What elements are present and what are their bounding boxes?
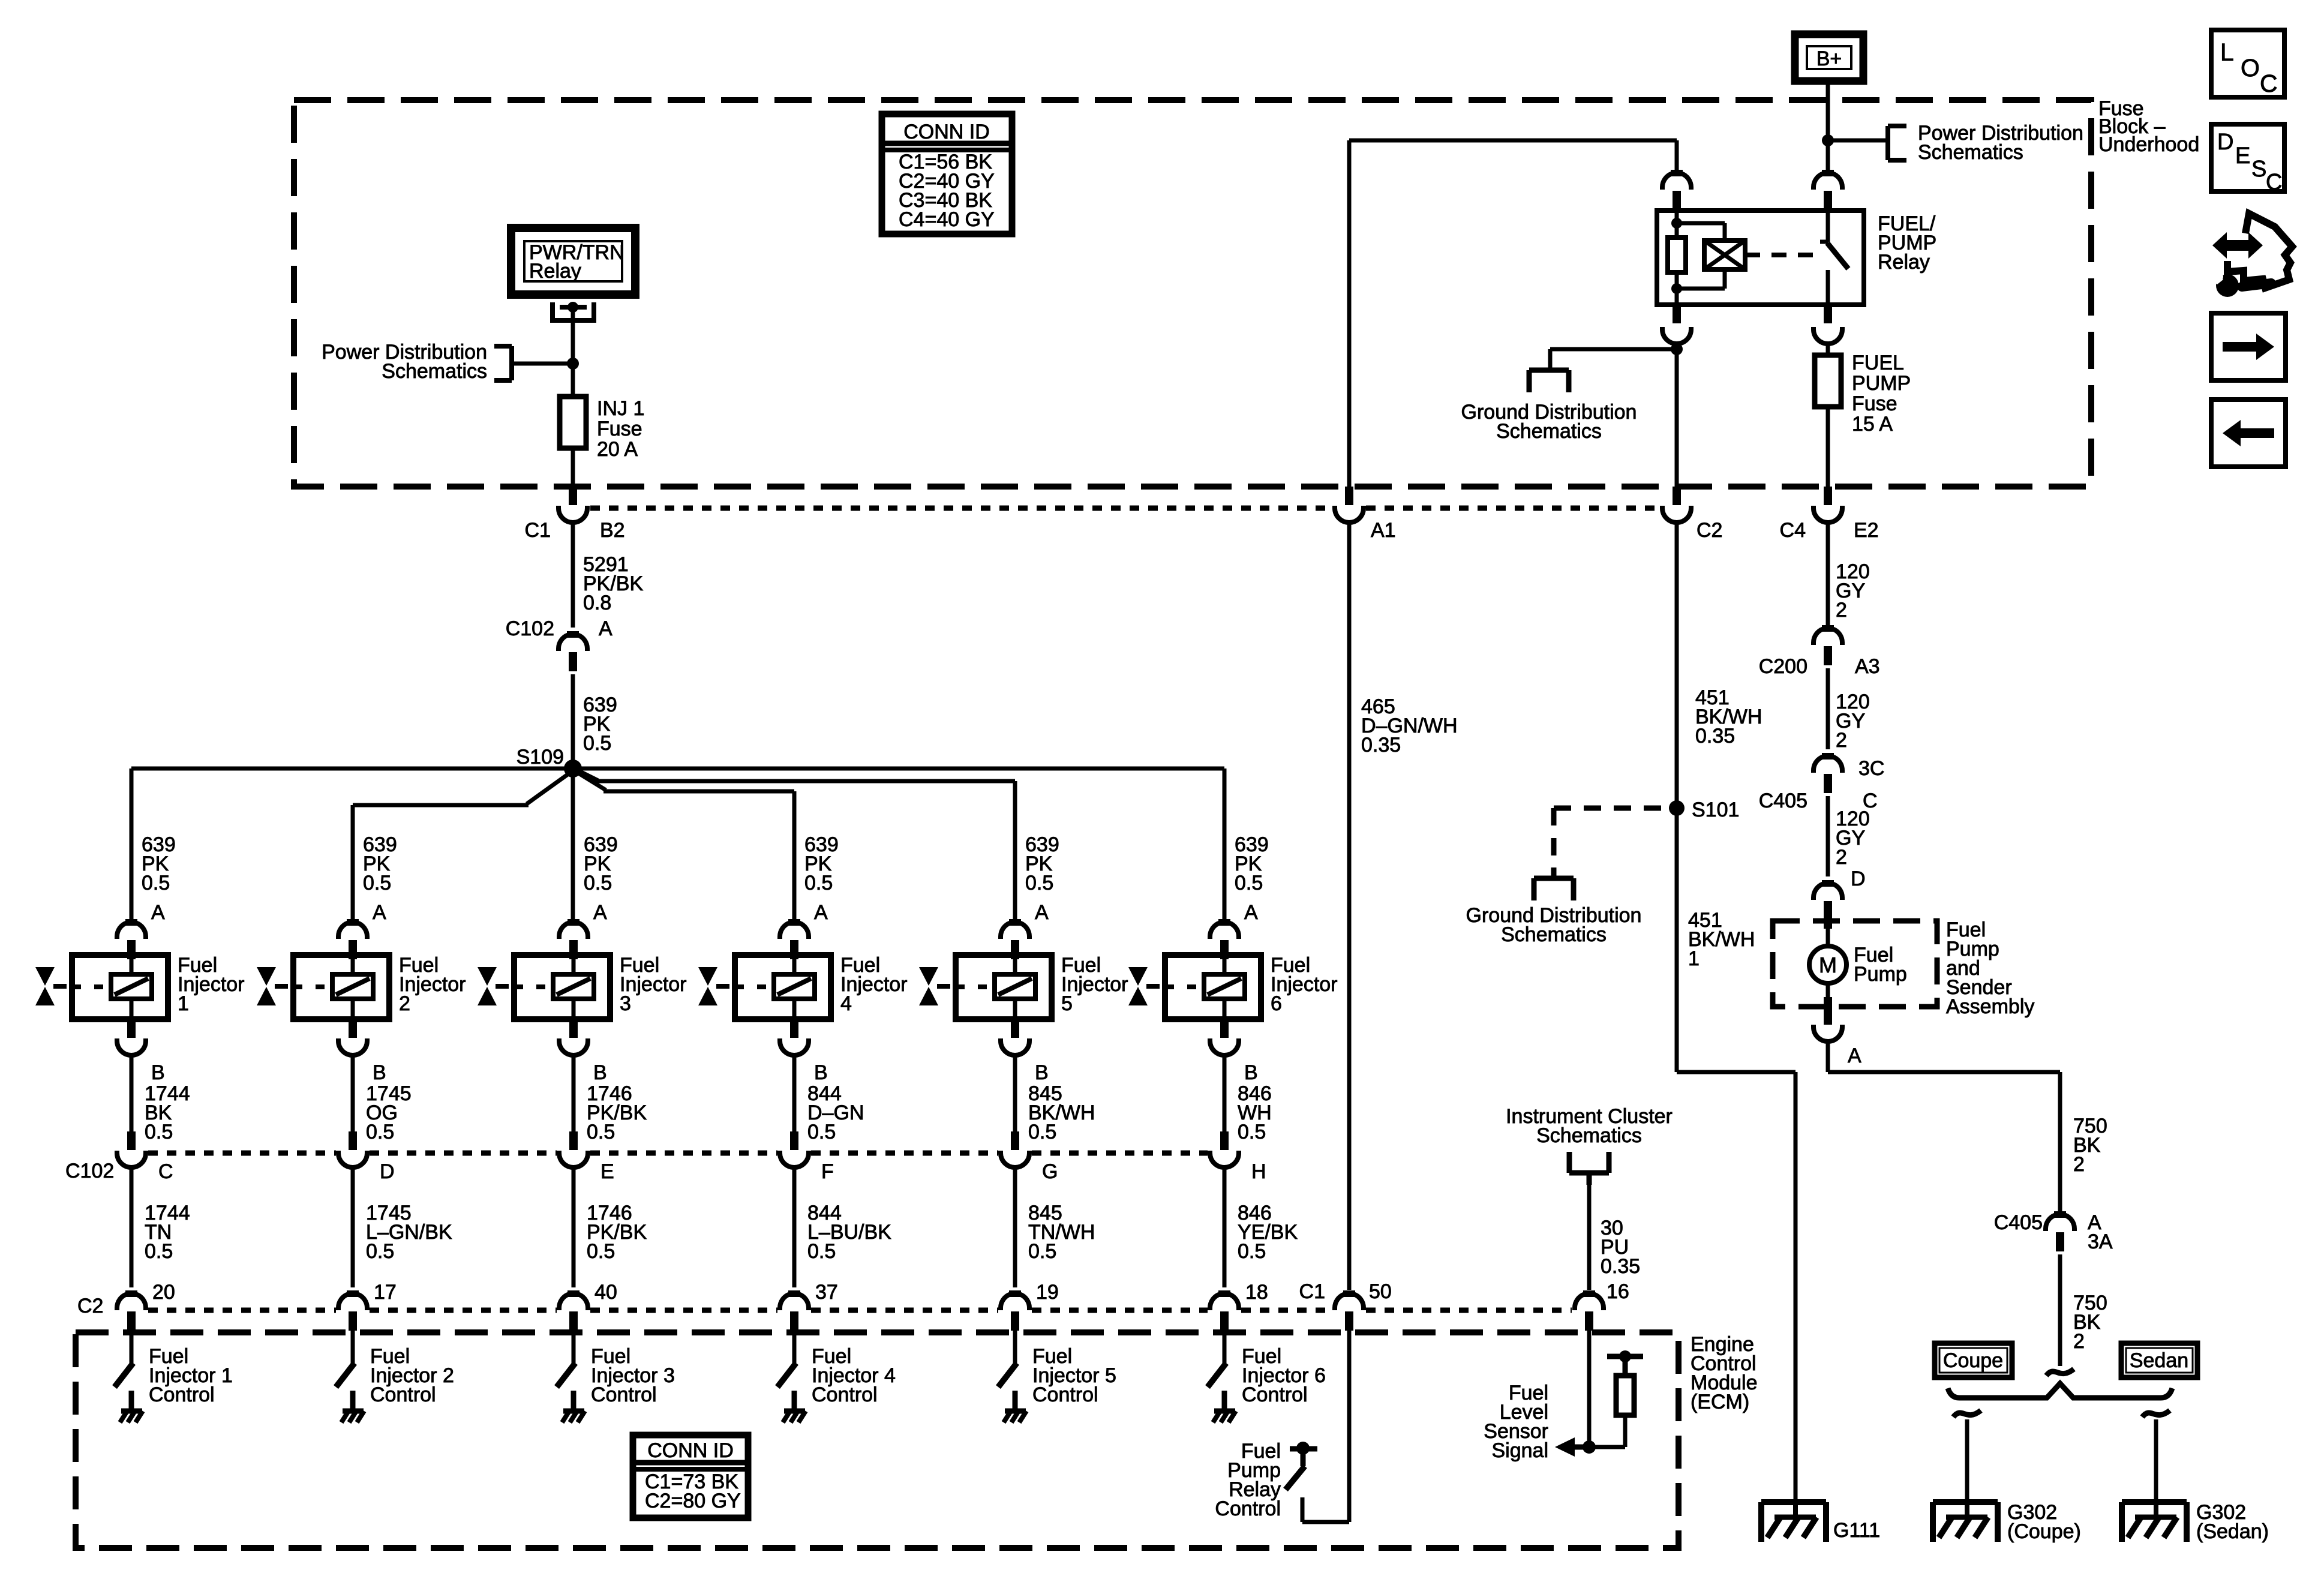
svg-text:M: M — [1819, 953, 1837, 977]
ground (injector 2 driver) — [341, 1411, 364, 1422]
svg-text:D: D — [2217, 130, 2233, 155]
label Fuel Injector 1 — [178, 954, 245, 1015]
label C200 — [1759, 655, 1807, 678]
svg-text:15 A: 15 A — [1852, 413, 1893, 436]
svg-text:A: A — [599, 617, 612, 640]
wire break symbol (750 BK) — [2046, 1369, 2074, 1376]
svg-text:Schematics: Schematics — [1536, 1124, 1642, 1147]
label terminal A3 — [1855, 655, 1880, 678]
svg-text:C: C — [2260, 70, 2278, 97]
svg-text:0.5: 0.5 — [142, 872, 170, 894]
wire relay coil feed to A1 column — [1349, 140, 1677, 487]
label terminal A (C102) — [599, 617, 612, 640]
label pin 17 — [374, 1281, 397, 1304]
label pin 16 — [1607, 1280, 1629, 1303]
wire to power distribution bracket (left) — [512, 362, 573, 366]
label C405 (lower) — [1994, 1211, 2043, 1234]
svg-text:C102: C102 — [65, 1160, 114, 1182]
connector ECM C2 pin 20 — [117, 1290, 146, 1331]
fuel injector 1 control switch — [115, 1363, 133, 1411]
label C102 (left) — [65, 1160, 114, 1182]
connector fuel pump terminal A — [1813, 1007, 1842, 1041]
wire to pull-up resistor — [1589, 1415, 1625, 1447]
PWR/TRN Relay box — [511, 228, 635, 295]
dotted connector line (underhood harness) — [590, 506, 1660, 511]
relay coil bottom connector — [1662, 305, 1691, 344]
wire 846 WH (engine harness) — [1223, 1055, 1227, 1131]
wire 1746 PK/BK (engine harness) — [572, 1055, 576, 1131]
svg-text:A: A — [1244, 901, 1258, 924]
fuse INJ 1 20 A — [560, 397, 586, 448]
label 451 BK/WH 0.35 — [1695, 686, 1762, 748]
wire 1746 PK/BK (main harness) — [572, 1167, 576, 1287]
label terminal D (C102) — [380, 1160, 395, 1183]
junction dot coil bottom — [1671, 283, 1682, 294]
relay switch fixed contact — [1820, 211, 1828, 242]
fuse block - underhood dashed boundary — [294, 100, 2091, 487]
connector injector 5 terminal B — [1001, 1019, 1029, 1055]
svg-text:B+: B+ — [1816, 47, 1842, 70]
svg-text:Relay: Relay — [1878, 251, 1930, 274]
connector ECM C2 pin 19 — [1001, 1290, 1029, 1331]
label S109 — [517, 746, 564, 769]
instrument cluster reference bracket — [1569, 1152, 1609, 1185]
label C2 (left) — [77, 1295, 103, 1317]
svg-text:Schematics: Schematics — [1501, 923, 1607, 946]
label terminal G (C102) — [1042, 1160, 1058, 1183]
label terminal A (C405) — [2088, 1211, 2101, 1234]
label Fuel Pump Relay Control — [1215, 1440, 1281, 1520]
label G302 (Coupe) — [2007, 1501, 2081, 1543]
svg-text:B2: B2 — [600, 519, 625, 542]
label terminal A (injector 3) — [593, 901, 607, 924]
svg-text:A3: A3 — [1855, 655, 1880, 678]
pull-up supply tee — [1607, 1350, 1643, 1376]
svg-text:C405: C405 — [1994, 1211, 2043, 1234]
LOC icon — [2211, 30, 2284, 97]
wire ECM pin 18 to driver — [1223, 1330, 1227, 1363]
fuel injector 1 valve symbol — [35, 967, 67, 1005]
wire relay coil pin up — [1675, 140, 1679, 171]
label terminal B (injector 4) — [814, 1061, 828, 1084]
wire S109 to injector 3 — [571, 769, 575, 922]
junction dot coil top — [1671, 218, 1682, 229]
svg-text:20 A: 20 A — [597, 438, 638, 461]
label 750 BK 2 (upper) — [2073, 1115, 2107, 1176]
label 451 BK/WH 1 — [1688, 909, 1755, 970]
ground G302 (sedan) — [2122, 1502, 2187, 1542]
svg-text:50: 50 — [1369, 1280, 1392, 1303]
label Ground Distribution Schematics (S101) — [1466, 904, 1642, 946]
label Fuel Injector 5 Control — [1032, 1345, 1116, 1406]
svg-text:0.35: 0.35 — [1361, 734, 1401, 757]
label pin 18 — [1245, 1281, 1268, 1304]
fuel injector 6 valve symbol — [1128, 967, 1160, 1005]
label 3A — [2088, 1230, 2113, 1253]
svg-text:C2: C2 — [1697, 519, 1722, 542]
svg-text:C: C — [158, 1160, 173, 1183]
label Fuel Pump and Sender Assembly — [1946, 918, 2034, 1018]
label C1 — [525, 519, 551, 542]
dotted connector line C102 — [148, 1151, 1208, 1156]
connector C2 — [1662, 487, 1691, 523]
connector C102 terminal F — [780, 1131, 809, 1167]
wire to power distribution bracket — [1828, 139, 1888, 143]
label G302 (Sedan) — [2196, 1501, 2269, 1543]
label terminal E (C102) — [600, 1160, 614, 1183]
junction dot B+ / power distribution — [1822, 134, 1834, 146]
fuel injector 6 control switch — [1208, 1363, 1226, 1411]
svg-text:0.8: 0.8 — [583, 592, 611, 614]
label Fuel Injector 6 — [1271, 954, 1338, 1015]
connector C102 terminal G — [1001, 1131, 1029, 1167]
fuel pump relay control driver symbol — [1286, 1442, 1317, 1490]
svg-text:2: 2 — [1836, 729, 1847, 752]
label Fuel Injector 6 Control — [1242, 1345, 1326, 1406]
relay coil winding branch — [1677, 223, 1725, 289]
fuse FUEL PUMP 15 A — [1815, 355, 1841, 407]
wire B+ to fuel pump relay — [1826, 81, 1830, 171]
wire 1745 OG (engine harness) — [351, 1055, 355, 1131]
svg-text:16: 16 — [1607, 1280, 1629, 1303]
label 844 L&#8211;BU/BK 0.5 — [807, 1202, 891, 1263]
label C1 (ECM) — [1299, 1280, 1325, 1303]
svg-text:4: 4 — [840, 992, 852, 1015]
svg-text:B: B — [593, 1061, 607, 1084]
wire sedan ground drop — [2154, 1419, 2158, 1502]
label terminal A (injector 2) — [373, 901, 386, 924]
svg-text:F: F — [821, 1160, 834, 1183]
fuel injector 2 (solenoid box) — [293, 955, 389, 1019]
svg-text:0.5: 0.5 — [807, 1240, 836, 1263]
label terminal H (C102) — [1251, 1160, 1266, 1183]
label terminal A (injector 5) — [1035, 901, 1049, 924]
svg-text:19: 19 — [1036, 1281, 1059, 1304]
label Fuel Pump (motor) — [1854, 944, 1907, 986]
fuel injector 2 control switch — [336, 1363, 355, 1411]
wire S109 to injector 4 — [578, 773, 794, 922]
svg-text:Sedan: Sedan — [2130, 1349, 2188, 1372]
label terminal C (C405) — [1863, 789, 1878, 812]
connector C102 terminal E — [559, 1131, 588, 1167]
label 1746 PK/BK 0.5 — [587, 1202, 647, 1263]
fuel injector 3 (solenoid box) — [514, 955, 610, 1019]
dashed link S101 to ground distribution — [1554, 808, 1669, 878]
power distribution reference bracket (right) — [1888, 126, 1906, 160]
svg-text:B: B — [1035, 1061, 1049, 1084]
FUEL/PUMP relay box — [1657, 211, 1864, 305]
wire 845 TN/WH (main harness) — [1013, 1167, 1017, 1287]
svg-text:G111: G111 — [1833, 1519, 1880, 1542]
wire 1745 L&#8211;GN/BK (main harness) — [351, 1167, 355, 1287]
svg-text:0.5: 0.5 — [583, 732, 611, 755]
wire break symbol (sedan) — [2142, 1410, 2170, 1417]
wire relay coil down to C2 — [1675, 344, 1679, 487]
connector injector 3 terminal B — [559, 1019, 588, 1055]
svg-text:Underhood: Underhood — [2098, 133, 2199, 156]
svg-text:(Coupe): (Coupe) — [2007, 1520, 2081, 1543]
fuel injector 5 valve symbol — [919, 967, 950, 1005]
relay coil top connector — [1662, 170, 1691, 210]
label Power Distribution Schematics (left) — [322, 341, 487, 383]
svg-text:Control: Control — [1215, 1497, 1281, 1520]
svg-text:Fuse: Fuse — [1852, 392, 1897, 415]
label B2 — [600, 519, 625, 542]
svg-text:2: 2 — [2073, 1153, 2085, 1176]
svg-text:3A: 3A — [2088, 1230, 2113, 1253]
wire ECM pin 37 to driver — [792, 1330, 797, 1363]
splice S109 — [564, 760, 582, 778]
label terminal A (injector 1) — [151, 901, 165, 924]
label 845 BK/WH 0.5 — [1028, 1082, 1095, 1143]
label E2 — [1854, 519, 1879, 542]
wire 844 D&#8211;GN (engine harness) — [792, 1055, 797, 1131]
ground (injector 6 driver) — [1213, 1411, 1236, 1422]
connector C4/E2 — [1813, 487, 1842, 523]
label Fuel Injector 2 Control — [370, 1345, 454, 1406]
fuel injector 5 control switch — [998, 1363, 1017, 1411]
svg-text:(Sedan): (Sedan) — [2196, 1520, 2269, 1543]
ground G111 — [1761, 1502, 1826, 1542]
connector C405 terminal A/3A — [2046, 1211, 2074, 1251]
wire 120 GY (C) — [1826, 796, 1830, 876]
svg-text:20: 20 — [152, 1281, 175, 1304]
relay switch movable arm — [1827, 243, 1848, 269]
connector injector 1 terminal A — [117, 919, 146, 959]
fuel pump motor — [1809, 919, 1846, 1007]
label 639 PK 0.5 (injector 4) — [804, 833, 839, 894]
connector C405 terminal 3C/C — [1813, 753, 1842, 793]
svg-text:A: A — [1035, 901, 1049, 924]
svg-text:A: A — [814, 901, 828, 924]
label Fuse Block - Underhood — [2098, 97, 2199, 156]
label C102 (A) — [506, 617, 554, 640]
connector injector 4 terminal A — [780, 919, 809, 959]
connector C102 terminal D — [338, 1131, 367, 1167]
ground distribution reference bracket (upper) — [1529, 370, 1569, 392]
label Power Distribution Schematics (right) — [1918, 122, 2083, 164]
label S101 — [1692, 798, 1739, 821]
relay coil pin wire — [1675, 209, 1679, 223]
label terminal B (injector 6) — [1244, 1061, 1258, 1084]
svg-text:Control: Control — [812, 1383, 878, 1406]
svg-text:B: B — [814, 1061, 828, 1084]
label 639 PK 0.5 (injector 2) — [363, 833, 397, 894]
wire 120 GY (A3) — [1826, 668, 1830, 749]
fuel injector 6 (solenoid box) — [1165, 955, 1261, 1019]
svg-text:0.5: 0.5 — [807, 1121, 836, 1143]
fuel injector 1 (solenoid box) — [72, 955, 168, 1019]
wire 5291 PK/BK — [571, 523, 575, 628]
svg-text:B: B — [151, 1061, 165, 1084]
junction dot relay coil ground branch — [1671, 343, 1683, 355]
label 639 PK 0.5 (injector 3) — [584, 833, 618, 894]
wire ECM pin 20 to driver — [130, 1330, 134, 1363]
svg-text:C2: C2 — [77, 1295, 103, 1317]
label pin 19 — [1036, 1281, 1059, 1304]
wire 750 BK to body option — [2058, 1254, 2062, 1366]
label 639 PK 0.5 (main) — [583, 694, 617, 755]
label 845 TN/WH 0.5 — [1028, 1202, 1095, 1263]
label Instrument Cluster Schematics — [1506, 1105, 1673, 1147]
relay coil winding symbol (box with X) — [1704, 241, 1745, 269]
svg-text:FUEL: FUEL — [1852, 352, 1904, 374]
svg-text:18: 18 — [1245, 1281, 1268, 1304]
resistor (fuel level pull-up) — [1616, 1376, 1634, 1415]
svg-text:Control: Control — [1242, 1383, 1308, 1406]
wire S109 to injector 1 — [131, 769, 573, 922]
wire S109 to injector 6 — [573, 769, 1224, 922]
CONN ID table (fuse block) — [882, 114, 1012, 234]
svg-text:0.5: 0.5 — [1238, 1240, 1266, 1263]
forward arrow icon — [2211, 313, 2286, 380]
svg-text:0.35: 0.35 — [1601, 1255, 1640, 1278]
svg-text:B: B — [373, 1061, 386, 1084]
connector injector 5 terminal A — [1001, 919, 1029, 959]
connector fuel pump terminal D — [1813, 880, 1842, 920]
svg-text:Control: Control — [149, 1383, 215, 1406]
label 120 GY 2 (E2) — [1836, 560, 1870, 622]
wire break symbol (coupe) — [1953, 1410, 1981, 1417]
svg-text:1: 1 — [1688, 947, 1700, 970]
svg-text:Schematics: Schematics — [382, 360, 487, 383]
svg-text:C200: C200 — [1759, 655, 1807, 678]
schematic navigation icon (outline) — [2227, 214, 2292, 288]
label 1745 OG 0.5 — [366, 1082, 412, 1143]
label 3C — [1858, 757, 1884, 780]
label Fuel Level Sensor Signal — [1484, 1382, 1548, 1462]
svg-text:0.5: 0.5 — [145, 1121, 173, 1143]
label terminal A (pump) — [1848, 1044, 1861, 1067]
svg-text:G: G — [1042, 1160, 1058, 1183]
svg-text:0.5: 0.5 — [1028, 1121, 1056, 1143]
label 1744 TN 0.5 — [145, 1202, 190, 1263]
svg-text:0.5: 0.5 — [145, 1240, 173, 1263]
wire 465 D-GN/WH — [1347, 523, 1352, 1290]
svg-text:Control: Control — [591, 1383, 657, 1406]
svg-text:Fuse: Fuse — [597, 418, 642, 440]
relay coil lower pin wire — [1675, 272, 1679, 305]
label pin 20 — [152, 1281, 175, 1304]
svg-text:A1: A1 — [1371, 519, 1396, 542]
svg-text:A: A — [151, 901, 165, 924]
svg-text:2: 2 — [1836, 599, 1847, 622]
svg-text:0.5: 0.5 — [587, 1121, 615, 1143]
label INJ 1 Fuse 20 A — [597, 397, 644, 461]
svg-text:INJ 1: INJ 1 — [597, 397, 644, 420]
label Fuel Injector 5 — [1061, 954, 1128, 1015]
label Fuel Injector 4 Control — [812, 1345, 896, 1406]
svg-text:D: D — [1851, 867, 1866, 890]
svg-text:0.5: 0.5 — [366, 1121, 394, 1143]
svg-text:Pump: Pump — [1854, 963, 1907, 986]
fuel injector 5 (solenoid box) — [956, 955, 1052, 1019]
svg-text:0.35: 0.35 — [1695, 725, 1735, 748]
label FUEL/PUMP Relay — [1878, 212, 1936, 274]
label terminal F (C102) — [821, 1160, 834, 1183]
ground (injector 4 driver) — [783, 1411, 806, 1422]
label pin 50 — [1369, 1280, 1392, 1303]
connector injector 2 terminal A — [338, 919, 367, 959]
connector C102 terminal C — [117, 1131, 146, 1167]
svg-text:A: A — [1848, 1044, 1861, 1067]
option brace — [1948, 1383, 2172, 1398]
label 750 BK 2 (lower) — [2073, 1292, 2107, 1353]
svg-text:0.5: 0.5 — [587, 1240, 615, 1263]
wire 120 GY (E2) — [1826, 523, 1830, 628]
B+ battery feed box — [1795, 34, 1863, 81]
svg-text:(ECM): (ECM) — [1691, 1391, 1749, 1413]
wire 30 PU — [1587, 1181, 1592, 1290]
svg-text:Schematics: Schematics — [1918, 141, 2023, 164]
wire 846 YE/BK (main harness) — [1223, 1167, 1227, 1287]
power distribution reference bracket (left) — [494, 346, 512, 380]
connector injector 3 terminal A — [559, 919, 588, 959]
ground (injector 3 driver) — [562, 1411, 585, 1422]
ground (injector 1 driver) — [120, 1411, 143, 1422]
svg-text:S109: S109 — [517, 746, 564, 769]
label 120 GY 2 (C) — [1836, 807, 1870, 869]
wire 750 BK to C405 — [1828, 1041, 2060, 1212]
schematic navigation icon (wrench) — [2206, 269, 2271, 297]
label 639 PK 0.5 (injector 6) — [1235, 833, 1269, 894]
fuel injector 4 control switch — [777, 1363, 796, 1411]
svg-text:S101: S101 — [1692, 798, 1739, 821]
relay coil resistor element — [1668, 223, 1686, 289]
svg-text:0.5: 0.5 — [366, 1240, 394, 1263]
svg-text:C2=80 GY: C2=80 GY — [645, 1490, 741, 1512]
label 1744 BK 0.5 — [145, 1082, 190, 1143]
svg-text:17: 17 — [374, 1281, 397, 1304]
svg-text:H: H — [1251, 1160, 1266, 1183]
connector C1/B2 — [559, 487, 587, 523]
svg-text:3C: 3C — [1858, 757, 1884, 780]
svg-text:0.5: 0.5 — [1028, 1240, 1056, 1263]
svg-text:0.5: 0.5 — [1235, 872, 1263, 894]
label Fuel Injector 2 — [399, 954, 466, 1015]
label Fuel Injector 4 — [840, 954, 908, 1015]
svg-text:Schematics: Schematics — [1496, 420, 1602, 443]
label Fuel Injector 3 Control — [591, 1345, 675, 1406]
wire pin 50 to fuel pump relay control — [1302, 1330, 1349, 1522]
svg-text:A: A — [593, 901, 607, 924]
connector injector 6 terminal B — [1210, 1019, 1239, 1055]
wire ECM pin 17 to driver — [351, 1330, 355, 1363]
svg-text:B: B — [1244, 1061, 1258, 1084]
relay switch lower pin wire — [1826, 270, 1830, 305]
label terminal A (injector 4) — [814, 901, 828, 924]
svg-text:L: L — [2220, 38, 2234, 66]
label terminal B (injector 2) — [373, 1061, 386, 1084]
svg-text:2: 2 — [399, 992, 410, 1015]
label pin 40 — [594, 1281, 617, 1304]
wire S109 to injector 5 — [579, 771, 1015, 922]
svg-text:CONN ID: CONN ID — [647, 1439, 734, 1462]
wire relay switch down to fuel pump fuse — [1826, 344, 1830, 355]
label Fuel Injector 3 — [620, 954, 687, 1015]
svg-text:0.5: 0.5 — [363, 872, 391, 894]
fuel level sensor signal arrow — [1555, 1437, 1589, 1457]
dotted connector line C2/C1 — [148, 1308, 1572, 1313]
connector C102 terminal A — [559, 631, 587, 671]
svg-text:Control: Control — [1032, 1383, 1098, 1406]
svg-text:C1: C1 — [525, 519, 551, 542]
wire PWR/TRN relay to INJ 1 fuse — [571, 307, 575, 397]
svg-text:Assembly: Assembly — [1946, 995, 2034, 1018]
fuel pump and sender assembly dashed box — [1773, 921, 1937, 1007]
fuel injector 4 (solenoid box) — [735, 955, 831, 1019]
svg-text:37: 37 — [815, 1281, 838, 1304]
